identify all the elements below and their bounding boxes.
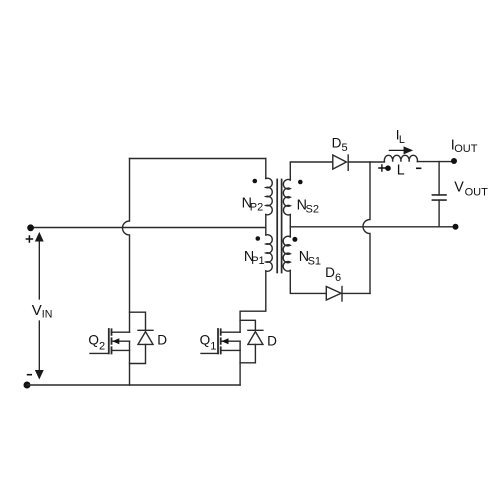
Q2 channel segments [111, 329, 113, 353]
svg-text:IN: IN [42, 309, 53, 321]
node NP2 dot [253, 179, 258, 184]
svg-text:2: 2 [99, 340, 105, 352]
svg-text:D: D [267, 333, 277, 348]
wire Q2 source vertical [129, 341, 131, 385]
Q1 channel segments [220, 329, 222, 353]
svg-text:D: D [157, 333, 167, 348]
wire primary center segment [265, 215, 267, 236]
transformer primary vertical NP2 segment [265, 159, 267, 179]
label Q1 [200, 333, 217, 353]
svg-text:1: 1 [210, 340, 216, 352]
arrow IL [389, 147, 411, 153]
capacitor COUT plates [432, 195, 446, 200]
label IOUT [451, 137, 478, 155]
winding NP2 [266, 178, 272, 215]
label D6 [325, 265, 341, 284]
Q2 body lead [112, 340, 130, 342]
wire Q2 drain vertical with hop over VIN+ rail [123, 159, 130, 333]
svg-text:OUT: OUT [454, 143, 478, 155]
svg-text:V: V [32, 302, 42, 319]
winding NS1 [283, 236, 290, 271]
label + (inductor) [379, 165, 385, 171]
label + (VIN plus) [26, 236, 32, 242]
label NP2 [242, 196, 264, 214]
svg-text:5: 5 [342, 142, 348, 154]
node inductor plus dot [385, 165, 391, 171]
svg-text:S1: S1 [308, 256, 321, 268]
wire Q1 source vertical [239, 341, 241, 385]
wire secondary center segment [289, 215, 291, 237]
label L [397, 162, 405, 178]
node VIN- terminal [24, 382, 31, 389]
svg-text:OUT: OUT [465, 186, 489, 198]
Q2 gate bar [108, 329, 110, 353]
Q1 drain lead [221, 331, 240, 333]
label D5 [332, 136, 348, 154]
svg-text:V: V [454, 180, 464, 196]
label NP1 [244, 249, 265, 267]
diode D (Q1 body) [240, 320, 263, 363]
node VIN+ terminal [27, 224, 34, 231]
node NS2 dot [298, 180, 303, 185]
svg-text:L: L [399, 134, 405, 146]
Q2 body arrow [112, 338, 119, 344]
transistor Q1 [201, 329, 240, 354]
svg-text:P2: P2 [250, 202, 263, 214]
capacitor COUT branch bottom [438, 200, 440, 227]
svg-text:Q: Q [88, 333, 99, 348]
label VIN [32, 302, 53, 321]
capacitor COUT branch top [438, 162, 440, 195]
svg-text:6: 6 [335, 272, 341, 284]
wire secondary tap rail (to output bottom) [290, 226, 455, 228]
winding NP1 [266, 235, 272, 272]
label IL [396, 127, 405, 146]
transformer core [277, 180, 281, 273]
wire primary bottom to Q1 drain step [240, 271, 266, 332]
diode D5 [333, 155, 348, 170]
wire secondary bottom to D6 [290, 271, 326, 294]
svg-text:L: L [397, 162, 405, 178]
label VOUT [454, 180, 488, 199]
Q1 body lead [221, 340, 240, 342]
diode D (Q2 body) [130, 312, 154, 363]
node output bottom terminal [453, 224, 459, 230]
Q1 body arrow [222, 338, 229, 344]
Q2 gate lead [90, 352, 109, 354]
inductor L [384, 155, 417, 161]
label Q2 [88, 333, 105, 353]
wire D6 cathode to vertical [342, 292, 370, 294]
svg-text:S2: S2 [306, 204, 319, 216]
label - (inductor) [417, 167, 421, 169]
winding NS2 [283, 180, 290, 215]
diode D6 [326, 287, 342, 302]
wire secondary top corner to D5 [290, 162, 333, 180]
label NS2 [297, 198, 319, 216]
wire bottom rail (VIN- to Q1 source) [27, 384, 240, 386]
wire inductor to IOUT terminal [417, 161, 454, 163]
wire primary top (Q2 drain to NP2 top) [130, 158, 266, 160]
svg-text:D: D [325, 265, 335, 280]
wire D5/L junction down to D6 with hop over tap rail [363, 162, 370, 293]
transistor Q2 [90, 329, 130, 354]
Q2 source lead [112, 349, 130, 351]
svg-text:D: D [332, 136, 342, 151]
arrow VIN double-headed [36, 233, 43, 378]
label - (VIN minus) [28, 374, 32, 376]
Q2 drain lead [112, 331, 130, 333]
Q1 gate lead [201, 352, 218, 354]
node NS1 dot [292, 237, 297, 242]
node IOUT terminal [451, 158, 457, 164]
label NS1 [299, 249, 321, 268]
wire VIN+ rail to primary center tap [31, 227, 266, 229]
svg-text:Q: Q [200, 333, 211, 348]
label D (Q2) [157, 333, 167, 348]
wire D5 cathode to inductor [348, 161, 384, 163]
Q1 source lead [221, 349, 240, 351]
node NP1 dot [255, 236, 260, 241]
label D (Q1) [267, 333, 277, 348]
svg-text:P1: P1 [251, 255, 264, 267]
Q1 gate bar [217, 329, 219, 353]
